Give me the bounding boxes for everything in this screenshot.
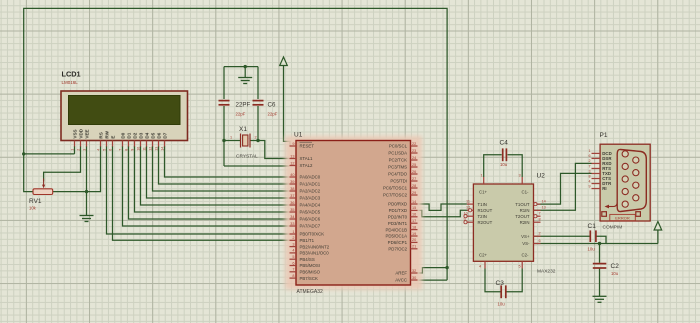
ground bbox=[593, 296, 607, 302]
svg-text:3: 3 bbox=[292, 242, 294, 246]
wire 22PF cap branch left bbox=[223, 67, 225, 99]
svg-text:PA3/ADC3: PA3/ADC3 bbox=[300, 196, 321, 201]
wire XTAL2 connection bbox=[224, 165, 290, 167]
svg-text:7: 7 bbox=[292, 268, 294, 272]
wire LCD E to U1 PB1 bbox=[113, 146, 290, 240]
P1 pin stubs bbox=[592, 153, 601, 188]
wire LCD D3 to U1 PA4 bbox=[141, 146, 290, 205]
svg-text:C2+: C2+ bbox=[479, 253, 488, 258]
svg-text:PD3/INT1: PD3/INT1 bbox=[388, 221, 408, 226]
svg-text:28: 28 bbox=[412, 184, 416, 188]
svg-text:PB4/SS: PB4/SS bbox=[300, 257, 315, 262]
RV1 wiper arrow bbox=[42, 179, 45, 189]
svg-text:1: 1 bbox=[292, 230, 294, 234]
svg-text:11: 11 bbox=[466, 200, 470, 204]
P1 ERROR indicator box bbox=[610, 214, 636, 220]
wire ground node stem bbox=[86, 192, 88, 216]
svg-text:8: 8 bbox=[292, 274, 294, 278]
svg-text:ATMEGA32: ATMEGA32 bbox=[297, 289, 324, 295]
svg-text:T2OUT: T2OUT bbox=[515, 214, 530, 219]
wire U2 T1OUT to P1 TXD bbox=[537, 173, 592, 204]
svg-text:T2IN: T2IN bbox=[478, 214, 487, 219]
wire C6 cap branch right bbox=[257, 67, 259, 99]
wire C4 loop left bbox=[484, 155, 502, 177]
svg-text:PB1/T1: PB1/T1 bbox=[300, 238, 315, 243]
LCD1 LM016L display body bbox=[61, 91, 188, 141]
svg-text:LM016L: LM016L bbox=[62, 80, 79, 85]
svg-text:VSS: VSS bbox=[72, 129, 77, 138]
capacitor C4 plates bbox=[503, 148, 507, 161]
svg-text:AVCC: AVCC bbox=[395, 278, 407, 283]
svg-text:1: 1 bbox=[481, 174, 483, 178]
svg-text:7: 7 bbox=[589, 164, 591, 168]
svg-text:PA1/ADC1: PA1/ADC1 bbox=[300, 182, 321, 187]
svg-text:VS+: VS+ bbox=[521, 234, 530, 239]
svg-text:25: 25 bbox=[412, 163, 416, 167]
svg-text:U2: U2 bbox=[537, 173, 546, 180]
svg-text:PB3/AIN1/OC0: PB3/AIN1/OC0 bbox=[300, 251, 330, 256]
svg-text:15: 15 bbox=[412, 206, 416, 210]
svg-text:2: 2 bbox=[589, 159, 591, 163]
svg-text:C4: C4 bbox=[500, 140, 509, 147]
op-amp U2 MAX232 body bbox=[473, 184, 533, 261]
U1 pin labels left bbox=[300, 144, 330, 281]
svg-text:1: 1 bbox=[230, 136, 232, 140]
svg-text:T1IN: T1IN bbox=[478, 202, 487, 207]
svg-text:24: 24 bbox=[412, 156, 416, 160]
svg-text:PB6/MISO: PB6/MISO bbox=[300, 270, 321, 275]
svg-text:PD0/RXD: PD0/RXD bbox=[388, 202, 407, 207]
svg-text:PA5/ADC5: PA5/ADC5 bbox=[300, 210, 321, 215]
svg-text:C6: C6 bbox=[268, 102, 276, 109]
resistor RV1 potentiometer body bbox=[33, 189, 53, 195]
svg-text:PC7/TOSC2: PC7/TOSC2 bbox=[383, 193, 408, 198]
U1 pin numbers left bbox=[290, 142, 294, 278]
svg-text:CRYSTAL: CRYSTAL bbox=[236, 154, 258, 160]
wire top VCC loop (top rail) bbox=[24, 8, 447, 280]
P1 COMPIM body bbox=[600, 144, 650, 221]
svg-text:PD6/ICP1: PD6/ICP1 bbox=[388, 240, 408, 245]
P1 pin numbers bbox=[589, 149, 591, 188]
U2 top pin stubs bbox=[484, 177, 523, 184]
svg-text:10: 10 bbox=[464, 212, 468, 216]
wire LCD VDD pin to RV1 wiper bbox=[44, 146, 81, 182]
wire XTAL1 connection bbox=[258, 141, 290, 159]
wire C4 loop right bbox=[508, 155, 523, 177]
svg-text:C2: C2 bbox=[611, 263, 620, 270]
LCD1 pin stubs bbox=[75, 141, 165, 147]
svg-text:17: 17 bbox=[412, 219, 416, 223]
U1 pin labels right bbox=[383, 144, 408, 283]
svg-text:40: 40 bbox=[290, 173, 294, 177]
svg-text:14: 14 bbox=[412, 200, 416, 204]
capacitor C1 plates bbox=[590, 230, 596, 242]
svg-text:3: 3 bbox=[82, 149, 86, 151]
svg-text:T1OUT: T1OUT bbox=[515, 202, 530, 207]
svg-text:RESET: RESET bbox=[300, 144, 315, 149]
svg-text:D7: D7 bbox=[162, 132, 167, 138]
wire LCD D5 to U1 PA2 bbox=[153, 146, 290, 191]
svg-text:23: 23 bbox=[412, 149, 416, 153]
svg-text:D2: D2 bbox=[132, 132, 137, 138]
svg-text:RS: RS bbox=[98, 132, 103, 138]
svg-text:PA2/ADC2: PA2/ADC2 bbox=[300, 189, 321, 194]
svg-text:6: 6 bbox=[292, 261, 294, 265]
crystal X1 body bbox=[241, 134, 251, 148]
svg-text:7: 7 bbox=[539, 212, 541, 216]
svg-text:35: 35 bbox=[290, 208, 294, 212]
U2 right pin stubs bbox=[534, 204, 541, 243]
svg-text:R1OUT: R1OUT bbox=[478, 208, 493, 213]
svg-text:PD4/OC1B: PD4/OC1B bbox=[386, 227, 408, 232]
svg-text:D3: D3 bbox=[138, 132, 143, 138]
svg-text:PD2/INT0: PD2/INT0 bbox=[388, 215, 408, 220]
P1 DB9 holes column 1 bbox=[622, 151, 628, 207]
P1 DB9 holes column 2 bbox=[633, 157, 639, 201]
svg-text:5: 5 bbox=[102, 149, 106, 151]
node crystal right junction bbox=[256, 139, 259, 142]
ground bbox=[238, 78, 252, 84]
svg-text:AREF: AREF bbox=[395, 271, 407, 276]
svg-text:18: 18 bbox=[412, 225, 416, 229]
svg-text:9: 9 bbox=[130, 149, 134, 151]
wire U2 VS- rail to power arrow bbox=[534, 243, 658, 245]
svg-text:14: 14 bbox=[160, 147, 164, 151]
svg-text:PA7/ADC7: PA7/ADC7 bbox=[300, 224, 321, 229]
U1 pin numbers right bbox=[412, 142, 416, 280]
svg-text:12: 12 bbox=[290, 161, 294, 165]
svg-text:36: 36 bbox=[290, 201, 294, 205]
svg-text:22pF: 22pF bbox=[236, 112, 246, 117]
svg-text:PB0/T0/XCK: PB0/T0/XCK bbox=[300, 232, 325, 237]
svg-text:10u: 10u bbox=[500, 162, 508, 167]
svg-text:PC5/TDI: PC5/TDI bbox=[390, 179, 407, 184]
U1 right pin stubs bbox=[411, 146, 418, 280]
LCD1 pin numbers 1-14 bbox=[70, 147, 164, 151]
svg-text:X1: X1 bbox=[239, 126, 247, 133]
svg-text:MAX232: MAX232 bbox=[537, 269, 556, 275]
svg-text:6: 6 bbox=[589, 154, 591, 158]
svg-text:8: 8 bbox=[539, 218, 541, 222]
svg-text:R1IN: R1IN bbox=[520, 208, 530, 213]
wire C3 loop left bbox=[485, 269, 501, 292]
svg-text:2: 2 bbox=[76, 149, 80, 151]
svg-text:7: 7 bbox=[118, 149, 122, 151]
svg-text:2: 2 bbox=[255, 136, 257, 140]
wire U1 PD0/RXD to U2 T1IN bbox=[418, 204, 467, 210]
svg-text:P1: P1 bbox=[600, 132, 608, 139]
svg-text:RV1: RV1 bbox=[29, 198, 42, 205]
svg-text:LCD1: LCD1 bbox=[62, 70, 81, 79]
svg-text:D4: D4 bbox=[144, 132, 149, 138]
wire C3 loop right bbox=[506, 269, 522, 292]
svg-text:PA6/ADC6: PA6/ADC6 bbox=[300, 217, 321, 222]
P1 mounting square right bbox=[636, 212, 641, 217]
svg-text:22pF: 22pF bbox=[268, 112, 278, 117]
svg-text:4: 4 bbox=[96, 149, 100, 151]
wire C2 to ground bbox=[599, 268, 601, 296]
svg-text:13: 13 bbox=[290, 154, 294, 158]
U2 pin numbers bbox=[464, 174, 546, 269]
P1 mounting square left bbox=[602, 212, 607, 217]
svg-text:10: 10 bbox=[136, 147, 140, 151]
svg-text:R2IN: R2IN bbox=[520, 220, 530, 225]
wire ground tap stem bbox=[244, 67, 246, 78]
wire LCD D7 to U1 PA0 bbox=[165, 146, 290, 177]
svg-text:6: 6 bbox=[539, 239, 541, 243]
U1 ATMEGA32 body bbox=[296, 141, 411, 286]
capacitor C2 plates bbox=[593, 264, 607, 268]
svg-text:34: 34 bbox=[290, 215, 294, 219]
svg-text:10k: 10k bbox=[29, 206, 37, 211]
svg-text:10u: 10u bbox=[611, 271, 619, 276]
svg-text:2: 2 bbox=[292, 236, 294, 240]
wire AVCC feed from loop bbox=[418, 279, 448, 281]
svg-text:32: 32 bbox=[412, 269, 416, 273]
svg-text:8: 8 bbox=[589, 174, 591, 178]
svg-text:10u: 10u bbox=[498, 302, 506, 307]
node C2 tap on VS- rail bbox=[598, 242, 601, 245]
svg-text:6: 6 bbox=[108, 149, 112, 151]
svg-text:VS-: VS- bbox=[522, 241, 530, 246]
svg-text:D0: D0 bbox=[120, 132, 125, 138]
wire loop down to RV1 left terminal bbox=[24, 154, 33, 192]
wire U2 R1IN to P1 RXD bbox=[534, 163, 592, 210]
node loop/AREF junction bbox=[445, 266, 448, 269]
svg-text:22: 22 bbox=[412, 142, 416, 146]
svg-text:E: E bbox=[110, 136, 115, 139]
ground bbox=[80, 216, 94, 222]
svg-text:2: 2 bbox=[539, 232, 541, 236]
node crystal left junction bbox=[222, 139, 225, 142]
LCD1 pin labels bbox=[72, 128, 167, 138]
svg-text:PD7/OC2: PD7/OC2 bbox=[388, 247, 407, 252]
svg-text:PC2/TCK: PC2/TCK bbox=[389, 158, 407, 163]
wire LCD VSS pin drop bbox=[74, 146, 76, 154]
svg-text:D1: D1 bbox=[126, 132, 131, 138]
P1 DB9 connector shell bbox=[617, 149, 646, 211]
svg-text:5: 5 bbox=[519, 265, 521, 269]
svg-text:C2-: C2- bbox=[522, 253, 530, 258]
svg-text:C1: C1 bbox=[588, 223, 597, 230]
wire crystal left pin bbox=[224, 140, 241, 142]
svg-text:13: 13 bbox=[542, 206, 546, 210]
svg-text:4: 4 bbox=[589, 179, 591, 183]
svg-text:3: 3 bbox=[589, 169, 591, 173]
svg-text:1: 1 bbox=[70, 149, 74, 151]
svg-text:PB5/MOSI: PB5/MOSI bbox=[300, 263, 321, 268]
svg-text:ERROR: ERROR bbox=[615, 215, 630, 220]
LCD1 screen bbox=[69, 96, 181, 125]
wire LCD RS to ground node bbox=[87, 146, 101, 192]
svg-text:XTAL1: XTAL1 bbox=[300, 156, 314, 161]
node VSS/loop junction bbox=[22, 152, 25, 155]
U2 output bubbles left bbox=[464, 209, 472, 224]
svg-text:PA0/ADC0: PA0/ADC0 bbox=[300, 175, 321, 180]
svg-text:PD5/OC1A: PD5/OC1A bbox=[386, 234, 408, 239]
svg-text:10u: 10u bbox=[588, 247, 596, 252]
wire LCD D1 to U1 PA6 bbox=[129, 146, 290, 219]
node crystal top ground tap bbox=[244, 65, 247, 68]
svg-text:38: 38 bbox=[290, 187, 294, 191]
svg-text:PB2/AIN0/INT2: PB2/AIN0/INT2 bbox=[300, 244, 330, 249]
wire VSS rail to loop bbox=[24, 153, 75, 155]
capacitor 22PF left plates bbox=[219, 101, 230, 105]
svg-text:26: 26 bbox=[412, 170, 416, 174]
svg-text:D5: D5 bbox=[150, 132, 155, 138]
svg-text:19: 19 bbox=[412, 232, 416, 236]
svg-text:13: 13 bbox=[154, 147, 158, 151]
svg-text:20: 20 bbox=[412, 238, 416, 242]
wire U2 VS+ to C1 bbox=[534, 235, 590, 237]
U2 bottom pin stubs bbox=[485, 261, 522, 268]
wire LCD D4 to U1 PA3 bbox=[147, 146, 290, 198]
svg-text:1: 1 bbox=[589, 149, 591, 153]
wire RV1 right terminal to ground node bbox=[53, 191, 87, 193]
capacitor C6 plates bbox=[253, 101, 264, 105]
U2 pin labels bbox=[478, 190, 531, 258]
svg-text:R2OUT: R2OUT bbox=[478, 220, 493, 225]
power arrow VCC right bbox=[654, 222, 662, 231]
svg-text:RW: RW bbox=[104, 130, 109, 138]
svg-text:39: 39 bbox=[290, 180, 294, 184]
U1 left pin stubs bbox=[290, 146, 297, 278]
svg-text:27: 27 bbox=[412, 177, 416, 181]
U2 output bubbles right bbox=[534, 203, 537, 218]
svg-text:9: 9 bbox=[589, 184, 591, 188]
svg-text:XTAL2: XTAL2 bbox=[300, 163, 314, 168]
svg-text:PA4/ADC4: PA4/ADC4 bbox=[300, 203, 321, 208]
wire LCD D6 to U1 PA1 bbox=[159, 146, 290, 184]
svg-text:5: 5 bbox=[292, 255, 294, 259]
svg-text:PC3/TMS: PC3/TMS bbox=[388, 165, 407, 170]
svg-text:12: 12 bbox=[466, 206, 470, 210]
svg-text:U1: U1 bbox=[294, 132, 303, 139]
svg-text:C1+: C1+ bbox=[479, 190, 488, 195]
svg-text:RI: RI bbox=[602, 186, 606, 191]
svg-text:PC0/SCL: PC0/SCL bbox=[389, 144, 408, 149]
wire LCD D0 to U1 PA7 bbox=[123, 146, 290, 226]
svg-text:8: 8 bbox=[124, 149, 128, 151]
node RV1/RS/VEE ground junction bbox=[85, 190, 88, 193]
svg-text:14: 14 bbox=[542, 200, 546, 204]
wire AREF jog to loop bbox=[418, 268, 448, 273]
svg-text:9: 9 bbox=[464, 218, 466, 222]
svg-text:3: 3 bbox=[519, 174, 521, 178]
svg-text:30: 30 bbox=[412, 276, 416, 280]
svg-text:PD1/TXD: PD1/TXD bbox=[389, 208, 407, 213]
U1 RESET overline bbox=[300, 141, 313, 143]
P1 cable arrow mark bbox=[605, 204, 618, 209]
wire C1 right to VS- rail bbox=[596, 236, 606, 243]
svg-text:PC6/TOSC1: PC6/TOSC1 bbox=[383, 186, 408, 191]
svg-text:VDD: VDD bbox=[78, 128, 83, 138]
power arrow VCC near U1 bbox=[280, 57, 288, 66]
svg-text:PC4/TDO: PC4/TDO bbox=[388, 172, 407, 177]
svg-text:4: 4 bbox=[292, 249, 294, 253]
svg-text:9: 9 bbox=[292, 142, 294, 146]
svg-text:PB7/SCK: PB7/SCK bbox=[300, 276, 318, 281]
svg-text:C3: C3 bbox=[496, 280, 505, 287]
svg-text:33: 33 bbox=[290, 222, 294, 226]
svg-text:11: 11 bbox=[142, 147, 146, 151]
svg-text:D6: D6 bbox=[156, 132, 161, 138]
svg-text:29: 29 bbox=[412, 191, 416, 195]
wire crystal top rail bbox=[224, 66, 258, 68]
svg-text:22PF: 22PF bbox=[236, 102, 251, 109]
svg-text:PC1/SDA: PC1/SDA bbox=[388, 151, 407, 156]
svg-text:4: 4 bbox=[479, 265, 481, 269]
capacitor C3 plates bbox=[501, 285, 506, 298]
wire LCD RW to U1 PB0 bbox=[107, 146, 290, 234]
svg-text:12: 12 bbox=[148, 147, 152, 151]
wire U1 PD1/TXD to U2 R1OUT bbox=[418, 210, 470, 217]
U2 left pin stubs bbox=[467, 204, 474, 222]
wire LCD D2 to U1 PA5 bbox=[135, 146, 290, 212]
svg-text:21: 21 bbox=[412, 245, 416, 249]
wire VCC arrow to RESET bbox=[284, 66, 291, 147]
svg-text:C1-: C1- bbox=[522, 190, 530, 195]
svg-text:37: 37 bbox=[290, 194, 294, 198]
wire C2 branch down bbox=[599, 244, 601, 263]
wire LCD VEE pin down to RV1/ground node bbox=[86, 146, 88, 192]
svg-text:16: 16 bbox=[412, 213, 416, 217]
svg-text:COMPIM: COMPIM bbox=[603, 225, 623, 231]
P1 pin labels bbox=[602, 151, 612, 191]
wire crystal right pin bbox=[250, 140, 258, 142]
svg-text:VEE: VEE bbox=[84, 129, 89, 138]
